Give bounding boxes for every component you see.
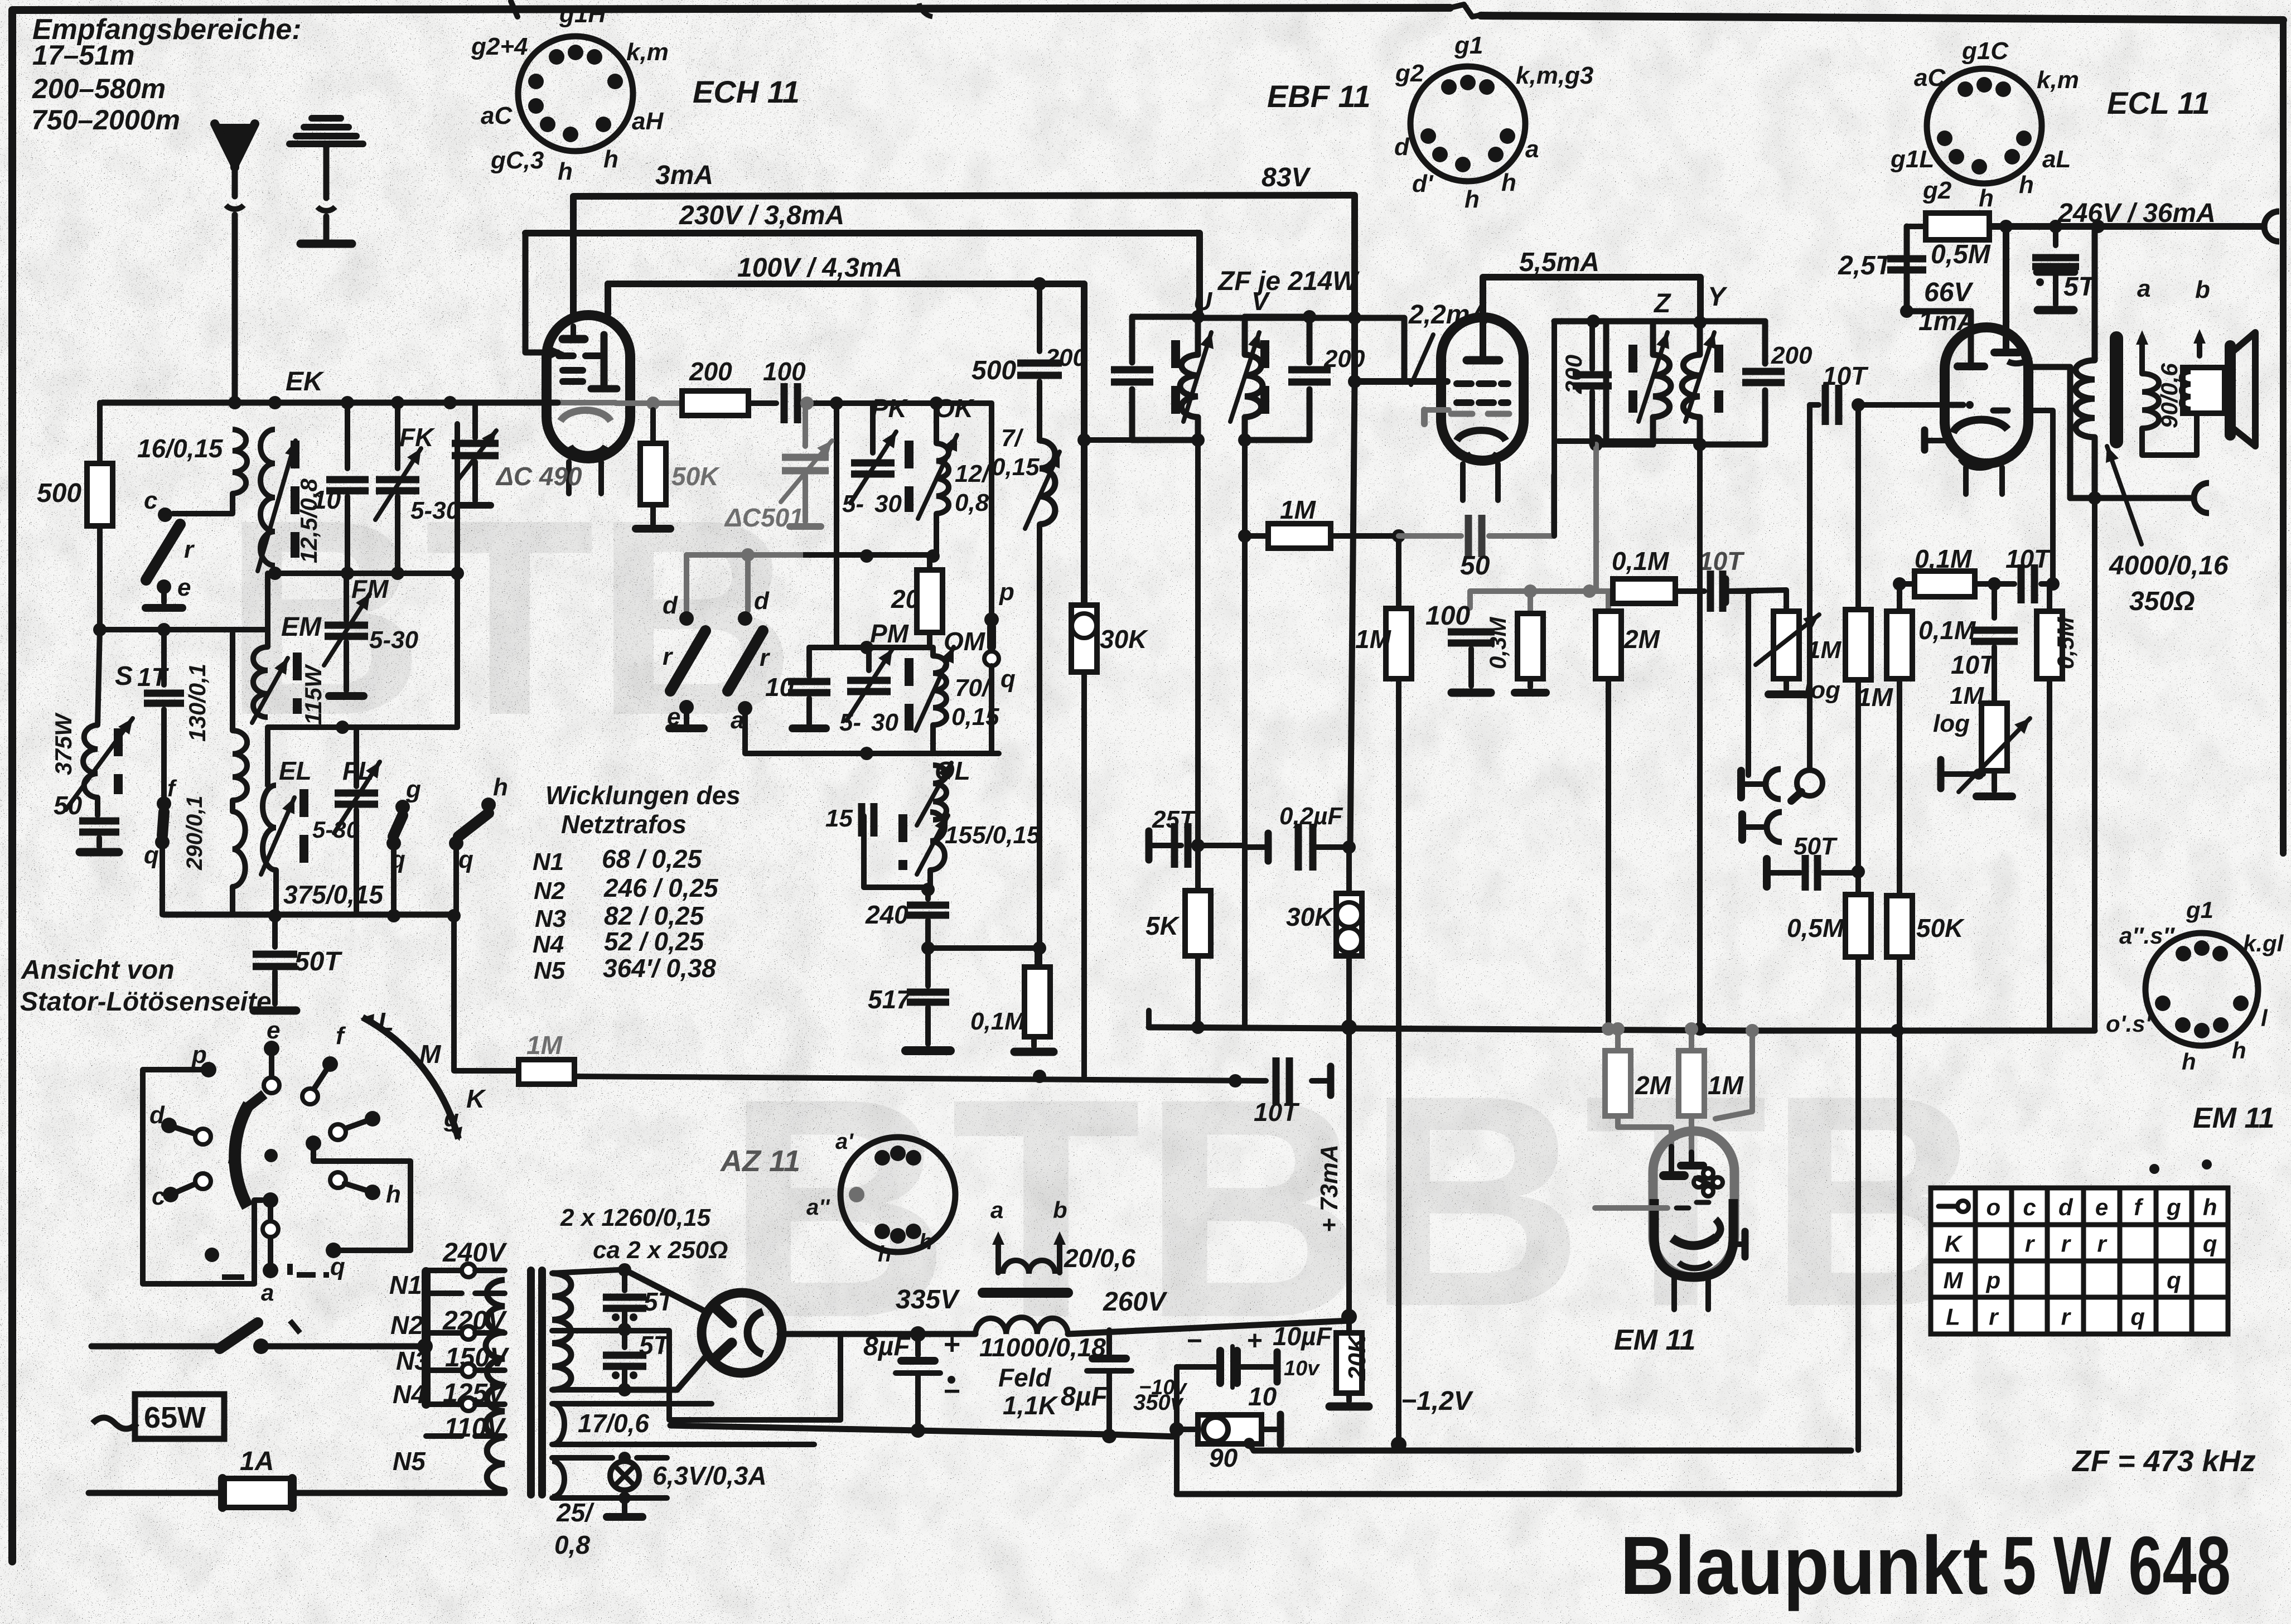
- svg-text:−: −: [944, 1375, 960, 1408]
- svg-text:1M: 1M: [526, 1031, 563, 1060]
- node: [1392, 529, 1405, 543]
- switch contact q: [326, 1243, 341, 1258]
- svg-text:N2: N2: [534, 877, 565, 905]
- capacitor 10T mid: [1992, 584, 1997, 618]
- wire: [173, 494, 233, 514]
- svg-text:OL: OL: [935, 756, 970, 785]
- svg-text:1,1K: 1,1K: [1003, 1391, 1058, 1420]
- svg-text:5,5mA: 5,5mA: [1519, 248, 1599, 277]
- wire band bottom rail: [164, 912, 456, 918]
- svg-text:10T: 10T: [1951, 650, 1997, 679]
- svg-text:30: 30: [871, 709, 898, 736]
- wire grid wire: [1858, 402, 1949, 408]
- node: [1602, 1022, 1615, 1036]
- node: [860, 747, 873, 760]
- wire anode to OT: [2028, 367, 2070, 498]
- svg-text:g1C: g1C: [1961, 37, 2009, 65]
- svg-text:12/: 12/: [955, 460, 992, 487]
- node: [830, 397, 843, 410]
- node: [1524, 584, 1537, 598]
- wire HT bot: [552, 1387, 618, 1393]
- node center: [264, 1149, 278, 1162]
- wire U line down: [1195, 845, 1201, 891]
- svg-text:0,3M: 0,3M: [1485, 617, 1511, 669]
- svg-text:Netztrafos: Netztrafos: [561, 810, 687, 839]
- ECL internals: [1968, 362, 1974, 366]
- transformer core: [527, 1270, 535, 1495]
- svg-text:90/0,6: 90/0,6: [2156, 363, 2182, 428]
- node: [391, 567, 404, 580]
- svg-text:20: 20: [891, 584, 920, 613]
- svg-text:Ansicht von: Ansicht von: [21, 955, 175, 985]
- svg-text:h: h: [1979, 185, 1994, 212]
- switch rotor arc: [235, 1104, 249, 1207]
- node: [1611, 1022, 1625, 1036]
- svg-text:750–2000m: 750–2000m: [31, 104, 180, 136]
- wire g step: [313, 1143, 410, 1250]
- wire: [1855, 680, 1861, 895]
- resistor 0,5M: [2047, 584, 2052, 611]
- svg-text:500: 500: [37, 478, 81, 508]
- contact q2: [386, 836, 401, 850]
- svg-text:5-30: 5-30: [312, 816, 359, 843]
- svg-text:N2: N2: [390, 1311, 423, 1340]
- svg-text:r: r: [2097, 1230, 2108, 1256]
- wire: [552, 1495, 667, 1501]
- svg-text:50: 50: [54, 791, 83, 820]
- coil 155/0,15: [930, 812, 945, 870]
- svg-text:+: +: [1247, 1326, 1263, 1356]
- svg-text:68 / 0,25: 68 / 0,25: [602, 844, 702, 873]
- node Z bot: [1589, 438, 1603, 451]
- wire: [1037, 524, 1042, 948]
- EM11 internals: [1664, 1171, 1684, 1180]
- wire: [1467, 591, 1473, 608]
- wire: [268, 724, 457, 730]
- node grid rail: [646, 397, 660, 410]
- wire U down: [1195, 440, 1201, 845]
- wire: [1783, 679, 1789, 689]
- svg-text:g2: g2: [1922, 177, 1952, 204]
- svg-text:1T: 1T: [137, 663, 170, 692]
- svg-text:5 W 648: 5 W 648: [2002, 1520, 2231, 1612]
- svg-text:g: g: [405, 776, 421, 803]
- wire: [1174, 1367, 1180, 1494]
- winding 6,3V: [552, 1461, 564, 1497]
- connector phone2: [1738, 814, 1746, 840]
- resistor 500: [97, 403, 103, 463]
- svg-text:M: M: [1944, 1267, 1964, 1293]
- connector phones: [1737, 771, 1745, 797]
- svg-text:q: q: [2203, 1230, 2217, 1256]
- wire +73mA: [1346, 956, 1352, 1317]
- svg-text:log: log: [1804, 676, 1840, 704]
- node: [926, 549, 940, 563]
- coil OM: [930, 647, 936, 656]
- resistor 30K: [1071, 605, 1097, 672]
- svg-text:d: d: [2058, 1194, 2073, 1220]
- tube socket EBF11: [1410, 66, 1525, 181]
- jack circle: [1797, 770, 1823, 796]
- box dot: [205, 1248, 219, 1262]
- IF transformer Z: [1603, 321, 1609, 444]
- cathode: [1921, 430, 1928, 450]
- contact a column: [268, 1200, 273, 1270]
- svg-text:8µF: 8µF: [1061, 1382, 1108, 1412]
- wire 66V: [1907, 226, 1971, 362]
- trimmer PM: [866, 647, 872, 670]
- svg-text:0,5M: 0,5M: [2052, 617, 2079, 669]
- svg-text:30: 30: [874, 490, 902, 518]
- switch mains: [91, 1343, 219, 1350]
- svg-text:3mA: 3mA: [655, 161, 713, 190]
- resistor 50K: [1887, 896, 1912, 957]
- svg-text:ΔC501: ΔC501: [724, 503, 804, 532]
- coil 130/0,1: [233, 731, 247, 800]
- svg-text:r: r: [228, 1140, 239, 1169]
- node: [618, 1452, 631, 1464]
- svg-text:r: r: [184, 536, 195, 563]
- label 65W box: [135, 1394, 224, 1439]
- node B+ b: [2049, 220, 2062, 233]
- svg-text:EM: EM: [281, 612, 322, 642]
- svg-text:Feld: Feld: [998, 1363, 1051, 1392]
- secondary 90/0,6: [2139, 337, 2145, 374]
- node: [2088, 491, 2101, 505]
- switch h: [481, 797, 496, 812]
- svg-text:10T: 10T: [1823, 361, 1869, 390]
- node: [800, 397, 814, 410]
- switch blade r2: [728, 631, 763, 691]
- wire: [1897, 679, 1902, 896]
- svg-text:240V: 240V: [442, 1238, 507, 1268]
- switch blade fq: [162, 812, 164, 835]
- node: [1746, 1024, 1759, 1037]
- svg-text:0,5M: 0,5M: [1787, 913, 1845, 942]
- svg-text:OK: OK: [935, 394, 975, 423]
- node: [417, 1338, 433, 1354]
- wire: [1606, 679, 1611, 1027]
- svg-text:EM 11: EM 11: [2193, 1102, 2274, 1134]
- tube pins: [1963, 467, 1969, 494]
- switch contact d2: [745, 555, 751, 611]
- wire: [1729, 588, 1752, 594]
- node: [387, 909, 400, 922]
- resistor 0,3M: [1528, 591, 1533, 613]
- node: [1341, 1019, 1357, 1035]
- svg-text:25T: 25T: [1152, 806, 1196, 833]
- capacitor 50: [79, 821, 119, 832]
- wire 1M down: [1396, 536, 1401, 608]
- svg-text:N5: N5: [393, 1447, 426, 1476]
- svg-text:a″.s″: a″.s″: [2119, 922, 2176, 949]
- wire bus left end: [1146, 1011, 1152, 1027]
- svg-text:k,m: k,m: [2037, 66, 2079, 94]
- capacitor 15: [861, 816, 867, 887]
- wire: [2041, 581, 2053, 587]
- svg-text:5-30: 5-30: [369, 626, 419, 654]
- svg-text:d: d: [1394, 133, 1410, 161]
- svg-text:50T: 50T: [294, 947, 342, 977]
- tube ECH11: [547, 315, 630, 458]
- wire: [98, 630, 100, 725]
- wire B- line: [2070, 495, 2193, 501]
- svg-text:15: 15: [825, 805, 853, 832]
- node 50T: [1852, 865, 1865, 878]
- svg-text:500: 500: [971, 356, 1016, 385]
- svg-text:r: r: [2061, 1230, 2072, 1256]
- connector B+ out: [2264, 211, 2279, 241]
- node: [1988, 577, 2001, 591]
- resistor 5K: [1185, 891, 1211, 956]
- svg-text:83V: 83V: [1261, 163, 1311, 192]
- svg-text:50T: 50T: [1794, 833, 1838, 860]
- fuse 1A: [89, 1490, 223, 1496]
- node: [1893, 577, 1906, 591]
- svg-text:q: q: [458, 846, 473, 873]
- wire EK top rail: [103, 400, 558, 406]
- grid row gray: [558, 400, 616, 405]
- node: [618, 1263, 631, 1277]
- svg-text:q: q: [2167, 1267, 2181, 1293]
- coil 7/0,15: [1040, 441, 1055, 524]
- node V bot: [1238, 433, 1251, 447]
- svg-text:b: b: [1053, 1197, 1067, 1223]
- resistor 2M EM: [1615, 1029, 1621, 1051]
- svg-text:115W: 115W: [300, 664, 326, 725]
- potentiometer 375W: [83, 725, 98, 797]
- svg-text:Y: Y: [1708, 282, 1728, 312]
- node: [93, 623, 107, 636]
- switch contact h pair: [330, 1172, 346, 1188]
- wire g2 out: [2028, 410, 2053, 584]
- wire: [928, 945, 1040, 951]
- wire: [552, 1455, 612, 1461]
- IF transformer U: [1132, 317, 1198, 362]
- svg-text:g1: g1: [1454, 32, 1483, 59]
- capacitor 10T: [1710, 571, 1723, 612]
- svg-text:a'': a'': [806, 1195, 830, 1220]
- node: [1169, 1422, 1184, 1437]
- svg-text:q: q: [144, 842, 159, 869]
- svg-text:K: K: [466, 1084, 486, 1113]
- wire 246V rail: [1989, 223, 2263, 230]
- svg-text:r: r: [2025, 1230, 2036, 1256]
- svg-text:h: h: [558, 158, 573, 185]
- node Y bot: [1693, 438, 1707, 451]
- capacitor 25T: [1145, 831, 1153, 860]
- winding 17/0,6: [552, 1404, 564, 1444]
- svg-text:2M: 2M: [1623, 625, 1661, 654]
- node: [1077, 433, 1091, 447]
- svg-text:8µF: 8µF: [863, 1332, 911, 1361]
- pointer 4000: [2107, 446, 2142, 544]
- trimmer PK: [870, 403, 876, 453]
- wire right electrode: [1715, 1031, 1752, 1119]
- svg-text:10: 10: [765, 673, 794, 702]
- wire: [1807, 405, 1812, 768]
- svg-text:246 / 0,25: 246 / 0,25: [603, 873, 719, 902]
- svg-text:100: 100: [763, 357, 806, 386]
- wire: [1855, 957, 1861, 1450]
- svg-text:66V: 66V: [1924, 278, 1974, 307]
- svg-text:ZF = 473 kHz: ZF = 473 kHz: [2071, 1444, 2256, 1478]
- choke 11000/0,18: [975, 1317, 1068, 1334]
- svg-text:90: 90: [1209, 1443, 1238, 1472]
- node: [911, 1423, 925, 1438]
- wire: [1346, 847, 1352, 893]
- wire: [1689, 1116, 1694, 1154]
- core PK: [905, 441, 913, 512]
- svg-text:ca 2 x 250Ω: ca 2 x 250Ω: [593, 1236, 728, 1264]
- wire: [1558, 438, 1700, 444]
- wire: [1899, 581, 1915, 587]
- transformer taps: [426, 1268, 462, 1273]
- svg-text:50: 50: [1460, 551, 1490, 581]
- svg-text:L: L: [378, 1007, 394, 1036]
- wire gray: [1551, 475, 1557, 536]
- tube pins: [566, 462, 572, 494]
- svg-text:aC: aC: [1914, 64, 1946, 91]
- node: [451, 567, 464, 580]
- node: [1342, 840, 1356, 854]
- svg-text:g1: g1: [2186, 897, 2213, 923]
- node: [447, 909, 461, 922]
- wire 3mA rail: [574, 195, 1447, 381]
- capacitor 500: [1037, 284, 1042, 351]
- node: [1229, 1074, 1242, 1087]
- svg-text:EK: EK: [286, 367, 325, 397]
- svg-text:10: 10: [312, 485, 341, 514]
- wire: [455, 424, 460, 573]
- wire: [1675, 588, 1704, 594]
- svg-text:10T: 10T: [2005, 544, 2052, 573]
- tube socket EM11: [2145, 933, 2258, 1046]
- svg-text:335V: 335V: [896, 1285, 960, 1314]
- label ~: [93, 1418, 137, 1429]
- terminal: [636, 525, 670, 533]
- wire: [1081, 672, 1087, 1076]
- svg-text:K: K: [1945, 1230, 1963, 1256]
- svg-text:FM: FM: [351, 574, 389, 603]
- svg-text:r: r: [2061, 1303, 2072, 1330]
- svg-text:d': d': [1412, 170, 1434, 197]
- wire: [1992, 771, 1997, 791]
- capacitor 1T: [161, 630, 167, 685]
- svg-text:0,1M: 0,1M: [1918, 616, 1976, 645]
- svg-text:Z: Z: [1653, 289, 1671, 318]
- node: [1033, 941, 1046, 955]
- node: [618, 1323, 631, 1336]
- svg-text:10v: 10v: [1284, 1357, 1320, 1380]
- wire U-V top rail: [1198, 318, 1404, 381]
- svg-text:a': a': [835, 1129, 854, 1154]
- svg-text:k.gl: k.gl: [2243, 930, 2284, 956]
- svg-text:k,m,g3: k,m,g3: [1516, 62, 1593, 89]
- svg-text:p: p: [1986, 1267, 2001, 1293]
- capacitor 100: [784, 383, 797, 423]
- wire 230V rail: [525, 233, 1200, 316]
- EBF internals: [1467, 356, 1499, 365]
- resistor 2M: [1606, 591, 1611, 611]
- capacitor 0,2uF: [1245, 844, 1265, 850]
- svg-text:5-30: 5-30: [410, 497, 460, 524]
- svg-text:10: 10: [1248, 1382, 1277, 1411]
- resistor 1M EM: [1689, 1029, 1694, 1051]
- wire: [748, 400, 776, 406]
- capacitor dC490: [472, 403, 478, 438]
- switch contact c: [158, 507, 172, 522]
- wire PM rail: [809, 645, 933, 650]
- svg-text:q: q: [1000, 665, 1016, 693]
- node Y top: [1693, 316, 1707, 329]
- svg-text:p: p: [999, 578, 1014, 606]
- svg-text:b: b: [2195, 276, 2210, 303]
- svg-text:0,8: 0,8: [955, 489, 989, 516]
- dots: [2149, 1164, 2159, 1174]
- wire: [1729, 590, 1786, 611]
- svg-text:c: c: [144, 487, 157, 514]
- wire p box: [143, 1070, 262, 1284]
- svg-text:11000/0,18: 11000/0,18: [979, 1333, 1106, 1362]
- svg-text:e: e: [267, 1017, 280, 1044]
- core: [293, 652, 302, 714]
- tube socket ECL11: [1927, 69, 2042, 183]
- wire PK box: [834, 403, 839, 647]
- lamp 6,3V: [610, 1461, 639, 1490]
- resistor 0,1M: [1024, 967, 1050, 1037]
- wire osc rail: [687, 552, 936, 558]
- connector: [2194, 483, 2209, 513]
- wire: [1195, 843, 1244, 848]
- wire jack: [1746, 591, 1751, 775]
- tube pins: [1460, 464, 1466, 500]
- contact q3: [449, 836, 463, 850]
- wire: [1855, 405, 1861, 610]
- core: [299, 789, 308, 867]
- svg-text:17/0,6: 17/0,6: [578, 1409, 649, 1438]
- cathode ECH: [560, 410, 611, 421]
- svg-text:EBF 11: EBF 11: [1267, 79, 1371, 114]
- output transformer 4000/0,16: [2092, 226, 2098, 360]
- tube socket AZ11: [840, 1137, 955, 1252]
- svg-text:h: h: [1464, 186, 1480, 213]
- svg-text:V: V: [1251, 287, 1270, 316]
- svg-text:a: a: [990, 1197, 1003, 1223]
- node: [1102, 1429, 1116, 1443]
- capacitor dC501: [803, 403, 808, 446]
- tube socket ECH11: [518, 36, 633, 151]
- svg-text:0,2µF: 0,2µF: [1279, 803, 1343, 830]
- svg-text:+ 73mA: + 73mA: [1316, 1144, 1343, 1232]
- svg-text:230V / 3,8mA: 230V / 3,8mA: [679, 201, 844, 230]
- svg-text:q: q: [330, 1253, 345, 1280]
- svg-text:50K: 50K: [671, 462, 720, 491]
- wire: [864, 884, 928, 890]
- contact a dashes: [222, 1264, 329, 1333]
- svg-text:20K: 20K: [1343, 1333, 1371, 1381]
- node: [1348, 311, 1361, 325]
- wire main bus: [1149, 1027, 2095, 1031]
- node: [336, 721, 349, 734]
- svg-text:N1: N1: [389, 1270, 422, 1299]
- svg-text:e: e: [2095, 1194, 2108, 1220]
- svg-text:g2+4: g2+4: [471, 33, 528, 60]
- resistor 0,5M fb: [1907, 224, 1926, 229]
- resistor 0,1M vert: [1887, 611, 1912, 679]
- wire B+ main: [918, 1331, 975, 1337]
- svg-text:20/0,6: 20/0,6: [1064, 1244, 1135, 1273]
